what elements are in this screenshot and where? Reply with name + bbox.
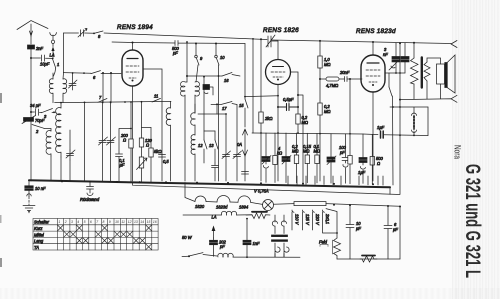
switch S11 bbox=[152, 98, 161, 102]
capacitor trimmer C8 bbox=[78, 29, 87, 38]
svg-text:µF: µF bbox=[393, 227, 398, 232]
wire volume bracket 2 bbox=[142, 102, 152, 128]
wire x350 column bbox=[349, 79, 351, 184]
svg-text:pF: pF bbox=[219, 244, 225, 249]
capacitor 0,5 bbox=[159, 155, 166, 158]
resistor secondary zigzag bbox=[424, 62, 430, 81]
heater 1823d bbox=[217, 196, 230, 203]
wire right column x400 bbox=[399, 43, 401, 194]
capacitor 10nF to ground bbox=[28, 180, 30, 185]
resistor w/ bar bbox=[252, 211, 267, 213]
detector rail bbox=[252, 133, 428, 136]
svg-text:Ω: Ω bbox=[377, 161, 380, 166]
capacitor variable C5 bbox=[66, 150, 75, 160]
wire primary bottom bbox=[413, 84, 415, 99]
wire volume bracket 1 bbox=[119, 102, 131, 154]
LA aerial cup bbox=[50, 33, 57, 36]
svg-text:8: 8 bbox=[98, 34, 101, 39]
svg-text:15: 15 bbox=[147, 220, 151, 224]
speaker magnet box bbox=[437, 64, 445, 84]
svg-text:Lang: Lang bbox=[34, 239, 44, 244]
capacitor 202pF bbox=[213, 238, 215, 256]
wire top feed bbox=[413, 42, 415, 44]
node ant lower tap bbox=[30, 111, 32, 113]
wire top line to speaker fork bbox=[271, 40, 451, 44]
capacitor 1uF block bbox=[362, 134, 364, 158]
indicator 0A element bbox=[243, 129, 248, 156]
svg-text:2kΩ: 2kΩ bbox=[264, 116, 272, 121]
svg-text:RENS 1823d: RENS 1823d bbox=[356, 28, 396, 35]
svg-text:1µF: 1µF bbox=[377, 125, 385, 130]
wire speaker bracket bbox=[427, 58, 441, 64]
svg-text:7: 7 bbox=[96, 220, 98, 224]
dial lamp bbox=[263, 200, 274, 211]
svg-text:220 V: 220 V bbox=[315, 213, 320, 226]
svg-text:7: 7 bbox=[99, 95, 102, 100]
node antenna tap bbox=[30, 57, 32, 59]
resistor ballast bbox=[294, 202, 326, 206]
resistor x350 box bbox=[348, 156, 352, 165]
heater 1820 bbox=[195, 196, 206, 202]
wire main bus bbox=[29, 180, 390, 187]
resistor 0,2M bbox=[318, 103, 322, 115]
resistor 1,0M bbox=[319, 41, 321, 56]
svg-text:5: 5 bbox=[84, 220, 86, 224]
capacitor C16 variable bbox=[233, 105, 242, 181]
coil L1b bbox=[63, 79, 67, 96]
svg-text:16: 16 bbox=[224, 78, 229, 83]
capacitor 34pF bbox=[31, 109, 42, 115]
capacitor 0,1uF bbox=[116, 154, 123, 182]
svg-text:pF: pF bbox=[172, 51, 178, 56]
primary taps bbox=[292, 210, 294, 230]
svg-text:pF: pF bbox=[339, 150, 345, 155]
tube V1 bbox=[122, 50, 143, 86]
switch S12 bbox=[204, 140, 207, 149]
svg-text:Kurz: Kurz bbox=[34, 226, 42, 231]
svg-text:1820: 1820 bbox=[195, 204, 205, 209]
svg-text:10: 10 bbox=[115, 220, 119, 224]
wire coil top leads bbox=[53, 73, 64, 79]
capacitor AVC a bbox=[265, 133, 267, 157]
svg-text:Feld: Feld bbox=[319, 240, 328, 245]
svg-text:G 321 und G 321 L: G 321 und G 321 L bbox=[461, 164, 484, 278]
edge smudges bbox=[0, 93, 2, 103]
terminal fork bottom + line bbox=[399, 99, 401, 101]
switch S17 bbox=[211, 102, 237, 105]
svg-text:5kΩ: 5kΩ bbox=[154, 149, 161, 154]
capacitor 70pF trimmer bbox=[24, 118, 34, 122]
wire heater lower line bbox=[183, 214, 222, 216]
capacitor tuning gang Ca bbox=[99, 102, 108, 181]
wire antenna lead bbox=[30, 36, 32, 44]
speaker cone bbox=[445, 63, 447, 88]
svg-text:3: 3 bbox=[44, 114, 47, 119]
svg-text:MΩ: MΩ bbox=[302, 120, 309, 125]
svg-text:MΩ: MΩ bbox=[324, 62, 331, 67]
wire AVC link bbox=[245, 95, 278, 98]
resistor 120ohm bbox=[139, 138, 143, 147]
wire L3 columns bbox=[185, 95, 195, 181]
svg-text:Ω: Ω bbox=[146, 143, 149, 148]
capacitor 500pF bbox=[175, 41, 245, 46]
wire V2 anode bbox=[291, 72, 299, 133]
wire V1 top cap bbox=[132, 43, 134, 50]
svg-text:3: 3 bbox=[71, 220, 73, 224]
wire V3 topcap bbox=[372, 42, 374, 55]
svg-text:15: 15 bbox=[239, 103, 244, 108]
wire antenna column bbox=[30, 49, 32, 181]
svg-text:RENS 1826: RENS 1826 bbox=[263, 27, 299, 34]
svg-text:Mittel: Mittel bbox=[34, 232, 44, 237]
capacitor 0A bypass bbox=[242, 172, 249, 175]
switch S1 bbox=[52, 58, 54, 60]
wire anode B+ link bbox=[298, 95, 303, 184]
resistor 2k bbox=[259, 112, 263, 123]
switch S10 bbox=[215, 55, 218, 58]
tube V3 bbox=[361, 55, 385, 92]
wire osc column x245 bbox=[244, 44, 246, 128]
svg-text:µF: µF bbox=[120, 163, 125, 168]
coil L1a bbox=[49, 79, 53, 96]
wire second bus V 0,75A bbox=[133, 182, 401, 195]
switch S2a bbox=[42, 109, 53, 113]
field coil Feld bbox=[320, 245, 328, 247]
ground bbox=[27, 191, 31, 197]
heater chain line bbox=[185, 183, 195, 202]
node x320 bbox=[319, 40, 321, 42]
svg-text:20nF: 20nF bbox=[339, 70, 350, 75]
svg-text:17: 17 bbox=[222, 106, 227, 111]
capacitor L3 trim bbox=[203, 85, 210, 90]
wire grid columns bbox=[103, 73, 111, 103]
svg-text:9: 9 bbox=[109, 220, 111, 224]
svg-text:MΩ: MΩ bbox=[292, 149, 299, 154]
svg-text:10 nF: 10 nF bbox=[35, 186, 46, 191]
transformer primary winding bbox=[272, 215, 277, 234]
transformer core bbox=[272, 235, 288, 237]
wire grid return x260 bbox=[260, 39, 262, 181]
tube V2 bbox=[266, 60, 291, 85]
terminal fork top bbox=[451, 41, 457, 48]
svg-text:6: 6 bbox=[90, 220, 92, 224]
svg-text:1: 1 bbox=[57, 62, 59, 67]
wire x170 column bbox=[170, 101, 172, 181]
wire trafo right leg bbox=[326, 209, 337, 238]
svg-text:11: 11 bbox=[154, 94, 158, 99]
svg-text:V 0,75A: V 0,75A bbox=[254, 189, 269, 194]
svg-text:2x0,1: 2x0,1 bbox=[325, 213, 330, 224]
capacitor 2nF block bbox=[28, 45, 35, 49]
switch S8 bbox=[94, 31, 103, 33]
svg-text:Ω: Ω bbox=[123, 138, 126, 143]
node anode bracket bbox=[386, 72, 406, 74]
capacitor 6uF bbox=[384, 206, 392, 259]
svg-text:11: 11 bbox=[121, 220, 125, 224]
wire V2 cathode bbox=[277, 85, 279, 182]
capacitor C15 variable bbox=[222, 114, 231, 181]
svg-text:Nora: Nora bbox=[453, 145, 463, 159]
table Schalter bbox=[33, 219, 158, 251]
svg-text:kΩ: kΩ bbox=[277, 151, 282, 156]
switch S6 bbox=[91, 71, 101, 74]
capacitor Rueckwand bbox=[87, 182, 94, 196]
wire V2 topcap lead bbox=[277, 41, 279, 60]
svg-text:4: 4 bbox=[77, 220, 79, 224]
capacitor AVC b bbox=[285, 133, 287, 157]
svg-text:110 V: 110 V bbox=[295, 214, 300, 226]
capacitor trimmer C4 bbox=[69, 74, 78, 91]
svg-text:1: 1 bbox=[58, 220, 60, 224]
antenna bbox=[17, 21, 48, 30]
resistor 4k bbox=[274, 133, 276, 156]
svg-text:9: 9 bbox=[200, 56, 203, 61]
wire top line left arm bbox=[64, 32, 79, 34]
switch S13 bbox=[215, 140, 218, 149]
svg-text:TA: TA bbox=[34, 245, 39, 250]
resistor 0,1M bbox=[316, 133, 318, 155]
svg-text:µF: µF bbox=[356, 226, 361, 231]
wire L5 link bbox=[198, 113, 217, 115]
wire coil bottom leads bbox=[53, 96, 63, 103]
wire V1 anode bbox=[143, 69, 162, 181]
switch S2 bbox=[32, 125, 44, 129]
svg-text:14: 14 bbox=[140, 220, 144, 224]
capacitor 20nF bbox=[339, 77, 362, 82]
capacitor C14 bbox=[212, 163, 219, 181]
svg-text:12: 12 bbox=[128, 220, 132, 224]
node grid3 bbox=[319, 78, 321, 80]
svg-text:16: 16 bbox=[153, 220, 157, 224]
svg-text:34 pF: 34 pF bbox=[30, 103, 41, 108]
coil L4 bbox=[166, 108, 170, 126]
svg-text:13: 13 bbox=[134, 220, 138, 224]
heater 1894 bbox=[238, 196, 251, 202]
capacitor tuning gang Cb bbox=[107, 102, 116, 181]
svg-text:6: 6 bbox=[93, 75, 96, 80]
svg-text:4,7MΩ: 4,7MΩ bbox=[326, 83, 338, 88]
table X marks bbox=[58, 225, 151, 249]
wire secondary bottom bbox=[426, 81, 428, 99]
svg-text:1nF: 1nF bbox=[253, 241, 261, 246]
electrolytic dashed bbox=[390, 107, 428, 114]
wire V1 grid line bbox=[64, 73, 122, 74]
wire stub columns to bus bbox=[288, 176, 383, 185]
capacitor 10uF bbox=[346, 205, 354, 259]
wire S12 S13 top link bbox=[204, 130, 215, 132]
svg-text:MΩ: MΩ bbox=[314, 149, 321, 154]
resistor 0,2M div bbox=[296, 133, 298, 155]
resistor primary zigzag bbox=[411, 58, 419, 84]
wire osc coil leads bbox=[51, 103, 61, 181]
wire magnet bottom bbox=[440, 84, 442, 99]
wire V1 cathode bbox=[132, 86, 134, 181]
wire V1 topcap line bbox=[112, 42, 175, 43]
svg-text:MΩ: MΩ bbox=[324, 109, 331, 114]
coil L2b bbox=[56, 108, 61, 157]
capacitor block c bbox=[330, 134, 332, 157]
switch S16 bbox=[222, 73, 232, 77]
svg-text:nF: nF bbox=[383, 52, 388, 57]
bottom bus bbox=[337, 258, 400, 260]
svg-text:2: 2 bbox=[35, 129, 39, 134]
svg-text:8: 8 bbox=[103, 220, 105, 224]
switch mains bbox=[189, 253, 203, 256]
switch S7 bbox=[98, 99, 107, 103]
coil L2a bbox=[46, 131, 51, 156]
svg-text:13: 13 bbox=[209, 143, 214, 148]
svg-text:1823d: 1823d bbox=[216, 205, 228, 210]
svg-text:1894: 1894 bbox=[239, 205, 249, 210]
coil L5b bbox=[194, 154, 196, 181]
svg-text:1µF: 1µF bbox=[358, 170, 366, 175]
svg-text:LA: LA bbox=[212, 215, 217, 220]
wire V3 cathode bbox=[372, 92, 374, 181]
svg-text:Schalter: Schalter bbox=[34, 220, 50, 225]
potentiometer P1 bbox=[139, 157, 143, 168]
wire top line S8 to V2 grid cap bbox=[104, 33, 267, 40]
node y103 line bbox=[55, 101, 171, 102]
switch S15 bbox=[245, 99, 248, 108]
capacitor V2 grid cap bbox=[266, 35, 275, 47]
resistor bottom bbox=[362, 255, 375, 257]
capacitor 1nF mains bbox=[246, 219, 248, 258]
svg-text:0A: 0A bbox=[237, 142, 242, 147]
resistor 4,7M bbox=[320, 78, 326, 80]
resistor 500ohm bbox=[371, 135, 373, 157]
resistor 0,15M bbox=[306, 133, 308, 155]
svg-text:125 V: 125 V bbox=[305, 214, 310, 226]
svg-text:12: 12 bbox=[198, 143, 203, 148]
svg-text:Rückwand: Rückwand bbox=[80, 197, 100, 202]
wire osc feed column bbox=[63, 33, 65, 73]
wire transformer bottom leads bbox=[275, 254, 284, 257]
svg-text:10pF: 10pF bbox=[40, 62, 50, 67]
resistor 0,2M anode bbox=[296, 114, 300, 124]
svg-text:MΩ: MΩ bbox=[303, 149, 310, 154]
coil L5a bbox=[194, 104, 196, 135]
svg-text:10: 10 bbox=[220, 55, 225, 60]
svg-text:0,5: 0,5 bbox=[163, 159, 169, 164]
switch S9 bbox=[195, 55, 198, 58]
svg-text:LA: LA bbox=[50, 53, 55, 58]
svg-text:50 W: 50 W bbox=[182, 235, 193, 240]
coil RF choke b bbox=[218, 253, 233, 257]
svg-text:2: 2 bbox=[64, 220, 67, 224]
coil L3a bbox=[186, 42, 188, 82]
transformer core bbox=[421, 58, 423, 88]
svg-text:2nF: 2nF bbox=[35, 46, 44, 51]
resistor 5k bbox=[150, 128, 152, 149]
capacitor 100pF bbox=[345, 134, 347, 157]
coil RF choke a bbox=[221, 211, 236, 215]
switch S18 bbox=[389, 87, 392, 96]
svg-text:RENS 1894: RENS 1894 bbox=[117, 24, 153, 31]
coil L3b bbox=[195, 81, 199, 96]
svg-text:70pF: 70pF bbox=[35, 118, 45, 123]
transformer secondary winding bbox=[281, 215, 286, 234]
svg-text:0,5µF: 0,5µF bbox=[283, 97, 294, 102]
bus junction dots bbox=[61, 180, 63, 182]
capacitor 10pF bbox=[31, 55, 52, 61]
